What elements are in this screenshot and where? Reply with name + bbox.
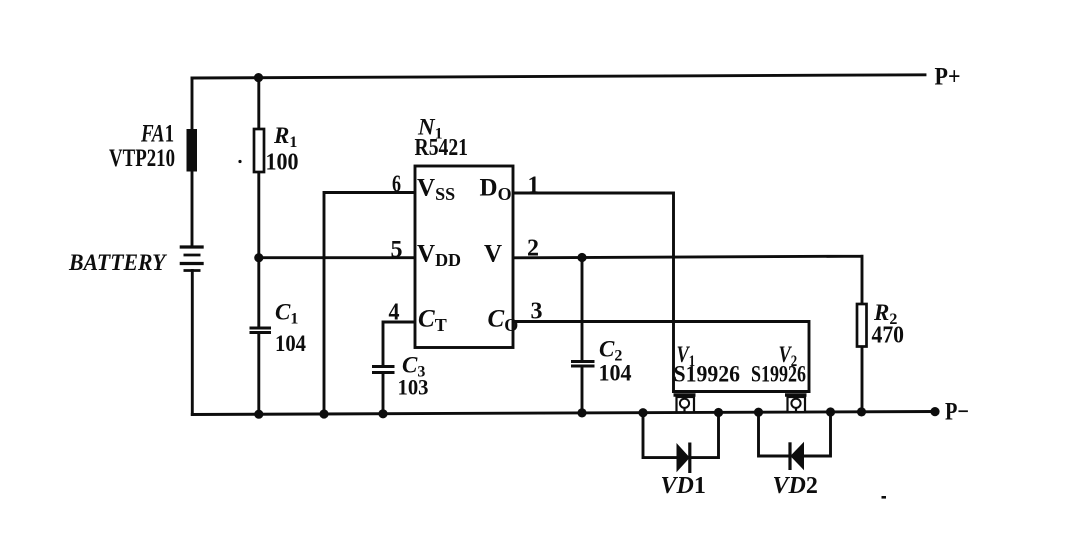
node VDD junction (254, 253, 263, 262)
wire C2 bottom to rail (581, 366, 584, 413)
svg-text:P+: P+ (935, 64, 961, 91)
svg-text:S19926: S19926 (751, 362, 806, 387)
wire VD2 loop (759, 412, 831, 456)
svg-text:103: 103 (398, 375, 429, 400)
node rail C3 (378, 409, 387, 418)
label V2 (779, 341, 798, 370)
resistor R2 (857, 304, 867, 347)
transistor V1 gate structure (674, 395, 696, 413)
speck noise right (882, 496, 887, 499)
node rail VD2 left (754, 408, 763, 417)
node rail VD1 right (714, 408, 723, 417)
svg-text:2: 2 (527, 236, 539, 262)
IC U1 R5421 box (415, 166, 513, 348)
svg-text:4: 4 (389, 299, 400, 325)
wire C2 branch top (581, 258, 584, 362)
node rail C1 (254, 410, 263, 419)
svg-text:1: 1 (528, 173, 540, 199)
svg-text:V: V (484, 241, 502, 268)
label FA1 (140, 119, 174, 147)
capacitor C3 (372, 367, 395, 373)
svg-text:3: 3 (531, 299, 543, 325)
wire pin 6 VSS (324, 193, 415, 415)
node top rail / R1 (254, 73, 263, 82)
wire left vertical from P+ rail to fuse/battery (191, 78, 194, 247)
diode VD2 (790, 442, 804, 471)
node rail pin6 (319, 409, 328, 418)
capacitor C2 (571, 362, 595, 367)
speck noise left (238, 160, 241, 163)
svg-text:FA1: FA1 (140, 119, 174, 147)
node rail C2 (577, 408, 586, 417)
svg-text:R1: R1 (273, 123, 297, 151)
wire pin 4 CT to C3 (383, 322, 415, 366)
svg-text:6: 6 (392, 172, 401, 198)
svg-text:100: 100 (266, 150, 299, 176)
svg-text:S19926: S19926 (674, 362, 741, 387)
wire R1 branch from top rail through R1 to C1 (257, 78, 260, 328)
battery BATTERY (180, 247, 204, 271)
node P- terminal (930, 407, 939, 416)
wire P+ top rail (192, 75, 925, 78)
wire pin 2 V to R2 (513, 256, 862, 304)
svg-text:5: 5 (391, 237, 403, 263)
wire pin 3 CO to V2 gate (box top edge) (513, 322, 809, 392)
junction node dots (238, 73, 939, 499)
label V1 (677, 341, 696, 370)
svg-text:104: 104 (599, 361, 632, 386)
svg-text:R5421: R5421 (415, 135, 469, 161)
node C2 top junction (577, 253, 586, 262)
wire bottom P- rail (192, 412, 935, 415)
wire battery negative to bottom rail (191, 271, 194, 415)
svg-text:BATTERY: BATTERY (68, 250, 167, 275)
transistor package box S19926 bottom edge (674, 390, 810, 393)
wire pin 1 DO down to V1 gate (513, 193, 674, 392)
wire pin 5 VDD (259, 256, 415, 259)
node rail R2 (857, 407, 866, 416)
svg-text:VD1: VD1 (661, 473, 706, 499)
svg-text:104: 104 (275, 331, 306, 357)
node rail VD1 left (638, 408, 647, 417)
svg-text:470: 470 (872, 323, 905, 349)
svg-text:VD2: VD2 (773, 473, 818, 499)
svg-text:C1: C1 (275, 300, 298, 328)
transistor V2 gate structure (785, 395, 807, 412)
resistor R1 (254, 129, 264, 172)
svg-text:VTP210: VTP210 (109, 145, 175, 172)
diode VD1 (677, 443, 690, 474)
wire VD1 loop (643, 413, 719, 458)
svg-text:P−: P− (945, 399, 969, 426)
wire C3 bottom to rail (382, 373, 385, 414)
capacitor C1 (250, 328, 272, 333)
fuse FA1 VTP210 (187, 129, 198, 172)
wire C1 bottom to rail (257, 333, 260, 415)
wire R2 bottom to rail (861, 347, 864, 412)
node rail VD2 right (826, 407, 835, 416)
